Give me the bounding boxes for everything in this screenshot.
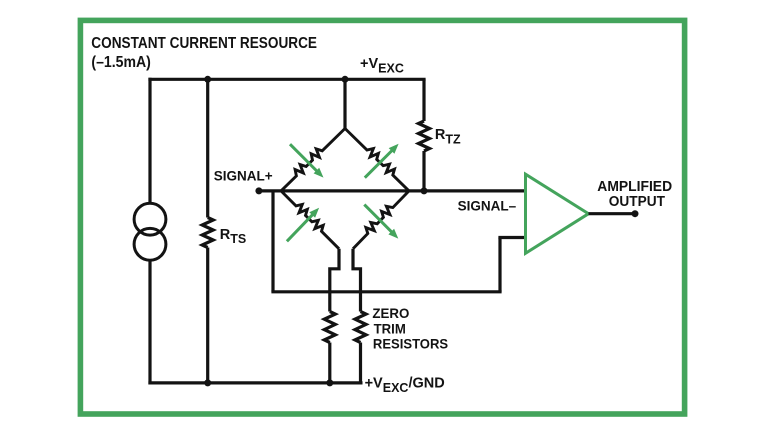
wire signal+ to opamp noninverting input	[259, 189, 526, 192]
wire feedback bottom run	[271, 290, 501, 293]
svg-text:CONSTANT CURRENT RESOURCE: CONSTANT CURRENT RESOURCE	[91, 35, 317, 52]
node AMPLIFIED OUTPUT terminal	[632, 210, 639, 217]
zero trim resistor right	[355, 312, 366, 343]
strain gauge resistor bridge bottom-left	[281, 191, 339, 249]
wire to opamp inverting input	[498, 236, 525, 239]
wire feedback rise	[498, 238, 501, 292]
svg-text:(–1.5mA): (–1.5mA)	[91, 54, 150, 71]
op-amp U1	[526, 174, 589, 253]
svg-text:AMPLIFIED: AMPLIFIED	[597, 179, 672, 195]
junction bottom rail / left trim resistor	[326, 379, 333, 386]
junction top rail / bridge	[342, 76, 349, 83]
svg-text:OUTPUT: OUTPUT	[609, 194, 665, 210]
svg-text:ZERO: ZERO	[372, 305, 409, 321]
wire op-amp output	[589, 212, 636, 215]
arrow top-right gauge	[365, 150, 393, 178]
svg-text:SIGNAL–: SIGNAL–	[458, 197, 517, 213]
wire top rail +VEXC	[148, 78, 425, 81]
wire left branch top	[148, 78, 151, 204]
arrow bottom-left gauge	[287, 214, 314, 242]
strain gauge resistor bridge bottom-right	[353, 191, 409, 249]
svg-text:TRIM: TRIM	[374, 321, 406, 337]
wire left branch bottom	[148, 260, 151, 384]
strain gauge resistor bridge top-right	[345, 129, 409, 191]
wire bottom rail +VEXC/GND	[148, 381, 362, 384]
arrow top-left gauge	[290, 144, 318, 172]
node SIGNAL+ terminal	[255, 187, 262, 194]
resistor RTZ	[422, 79, 425, 121]
junction top rail / RTS	[204, 76, 211, 83]
zero trim resistor left	[324, 312, 335, 343]
wire bridge feed	[343, 79, 346, 128]
svg-text:RESISTORS: RESISTORS	[373, 336, 448, 352]
wire bottom-right bridge leg to trim resistor	[353, 249, 361, 312]
svg-text:SIGNAL+: SIGNAL+	[214, 168, 273, 184]
current source I1	[134, 203, 166, 235]
arrow bottom-right gauge	[364, 205, 392, 233]
resistor RTS	[206, 79, 209, 217]
junction RTZ / signal- node	[421, 187, 428, 194]
junction bottom rail / RTS	[204, 379, 211, 386]
wire bottom-left bridge leg to trim resistor	[330, 249, 339, 312]
strain gauge resistor bridge top-left	[281, 129, 345, 191]
wire signal+ drop	[271, 191, 274, 292]
